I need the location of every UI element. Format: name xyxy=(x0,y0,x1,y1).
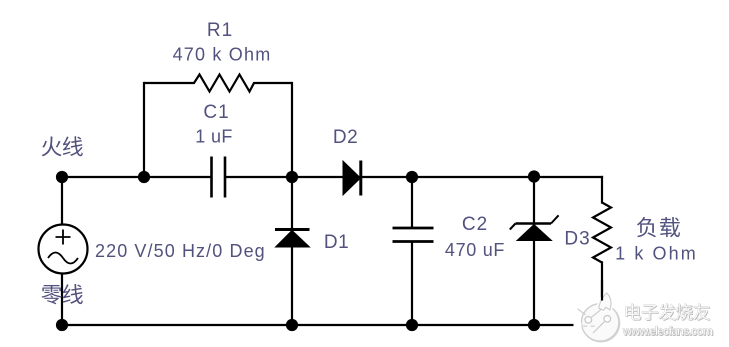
svg-text:www.elecfans.com: www.elecfans.com xyxy=(622,324,713,338)
node bottom D1 xyxy=(286,319,298,331)
resistor load xyxy=(593,203,611,263)
label fuzai (load) xyxy=(637,217,680,237)
node top R1 left xyxy=(138,171,150,183)
node top source xyxy=(56,171,68,183)
net label huoxian (live wire) xyxy=(42,136,83,156)
wire top horizontal right of C1 xyxy=(226,176,603,178)
white mask over bottom wire end xyxy=(574,323,582,328)
svg-text:R1: R1 xyxy=(207,20,233,41)
wire R1 right vertical xyxy=(291,83,293,177)
svg-text:D1: D1 xyxy=(324,232,349,253)
zener diode D3 xyxy=(510,215,559,240)
resistor R1 xyxy=(144,75,292,92)
node top C2 xyxy=(406,171,418,183)
node top D3 xyxy=(528,170,540,182)
svg-text:C2: C2 xyxy=(462,214,488,235)
wire source vertical bottom xyxy=(61,274,63,326)
wire C2 vertical top xyxy=(411,177,413,227)
wire load vertical top xyxy=(601,177,603,203)
svg-text:C1: C1 xyxy=(203,102,229,123)
wire bottom horizontal xyxy=(62,324,602,326)
svg-text:D2: D2 xyxy=(333,127,358,148)
node bottom source xyxy=(56,319,68,331)
capacitor C1 xyxy=(212,157,226,198)
svg-text:220 V/50 Hz/0 Deg: 220 V/50 Hz/0 Deg xyxy=(95,241,266,261)
svg-text:1 k Ohm: 1 k Ohm xyxy=(615,244,698,264)
watermark logo xyxy=(578,293,620,342)
svg-text:470 uF: 470 uF xyxy=(445,240,505,260)
wire D3 vertical xyxy=(533,177,535,325)
net label lingxian (neutral wire) xyxy=(41,284,82,304)
wire load vertical visible stub over watermark xyxy=(601,280,603,301)
AC source V1 xyxy=(39,225,88,274)
svg-text:D3: D3 xyxy=(564,229,590,250)
capacitor C2 xyxy=(393,228,434,242)
watermark text dianzifashaoyou xyxy=(626,304,711,321)
wire load vertical bottom xyxy=(601,263,603,326)
node bottom C2 xyxy=(406,319,418,331)
diode D2 xyxy=(343,161,361,196)
diode D1 xyxy=(275,230,310,248)
svg-text:1 uF: 1 uF xyxy=(195,127,233,147)
wire R1 left vertical xyxy=(143,83,145,177)
svg-text:470 k Ohm: 470 k Ohm xyxy=(173,45,272,65)
node bottom D3 xyxy=(528,319,540,331)
wire C2 vertical bottom xyxy=(411,242,413,325)
wire D1 vertical xyxy=(291,177,293,325)
node top D1 xyxy=(286,171,298,183)
wire source vertical top xyxy=(61,177,63,225)
wire top horizontal left of C1 xyxy=(62,176,211,178)
